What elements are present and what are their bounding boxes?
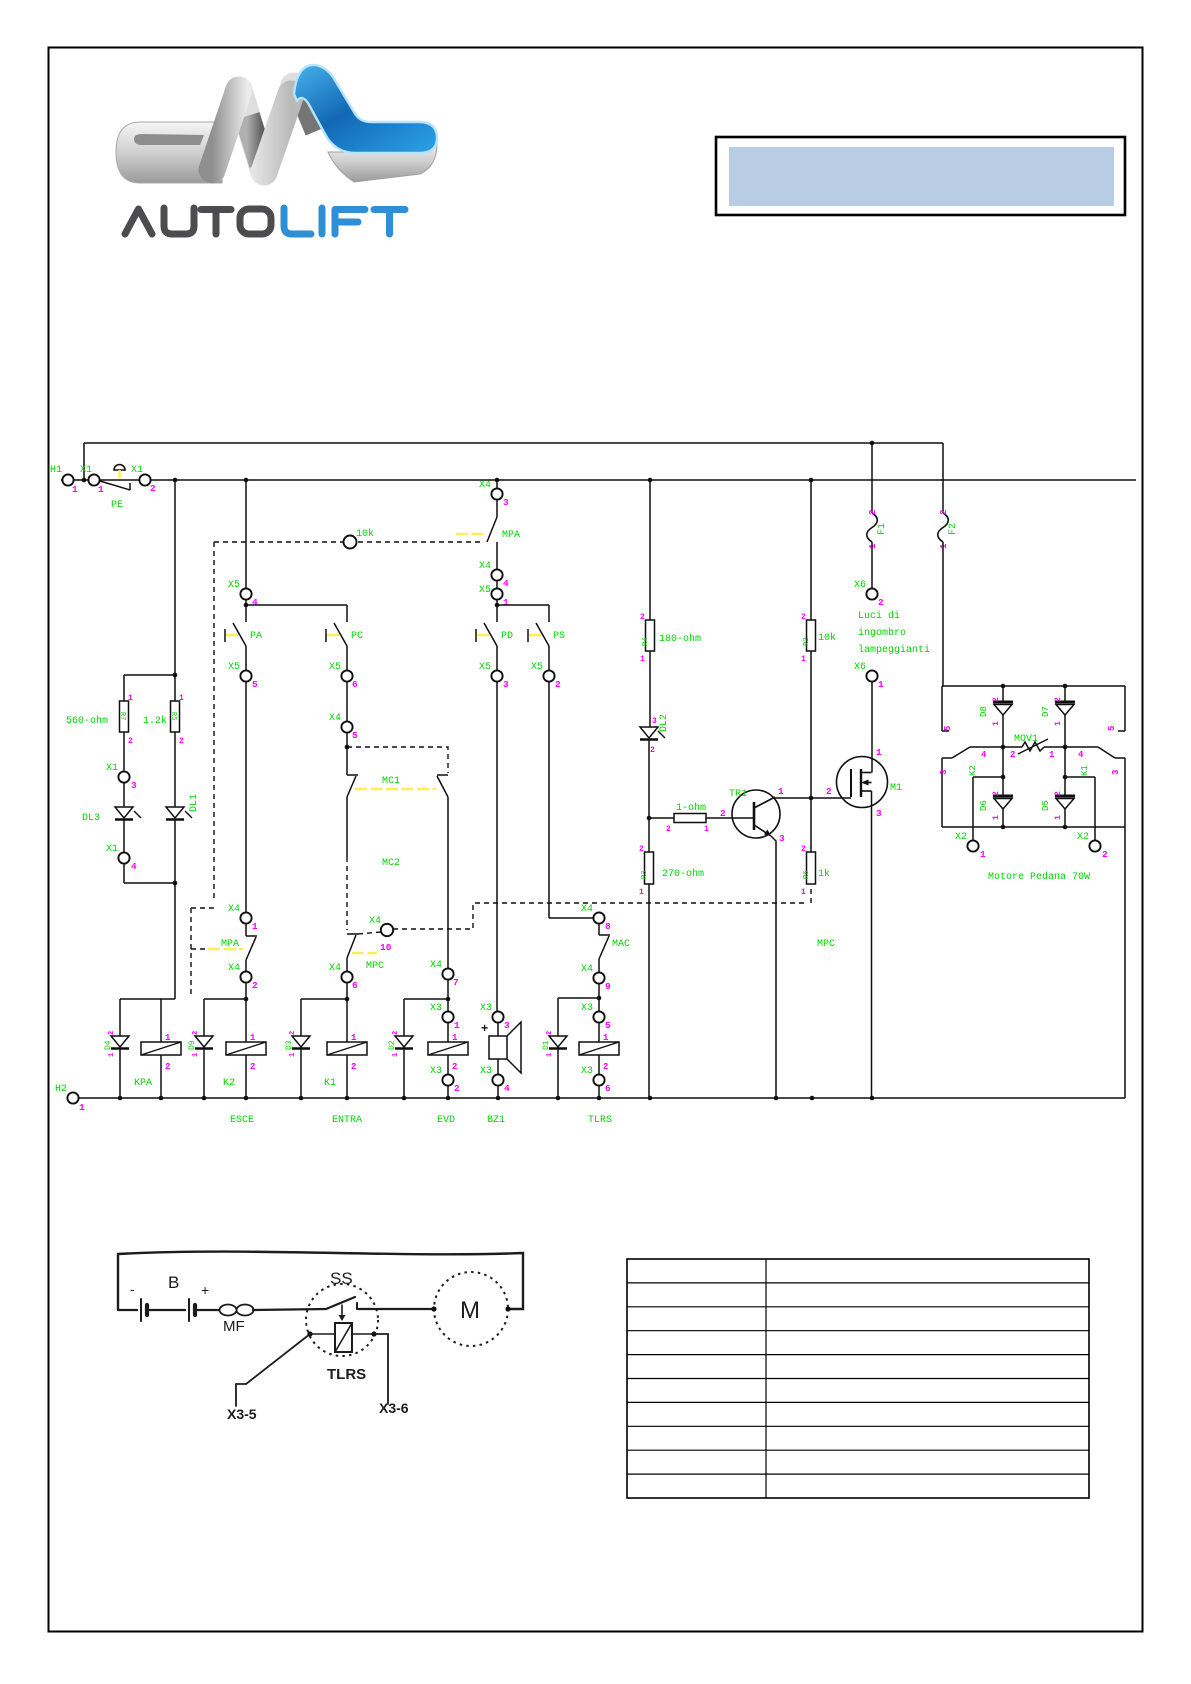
svg-text:K2: K2 [223, 1078, 235, 1089]
svg-text:2: 2 [801, 845, 806, 854]
wire MPA top column [496, 480, 498, 488]
svg-text:X1: X1 [106, 763, 118, 774]
switch MC1 right contact [437, 775, 448, 968]
svg-text:2: 2 [878, 597, 884, 608]
svg-text:2: 2 [650, 746, 655, 755]
svg-text:MPA: MPA [221, 939, 239, 950]
AUTOLIFT logo [116, 65, 437, 183]
svg-text:M1: M1 [890, 783, 902, 794]
svg-text:H2: H2 [55, 1084, 67, 1095]
diode D9 [188, 999, 213, 1098]
grey zigzag ribbon [212, 86, 294, 172]
svg-text:X5: X5 [479, 662, 491, 673]
svg-text:1-ohm: 1-ohm [676, 802, 706, 814]
svg-text:3: 3 [504, 1020, 510, 1031]
svg-text:MC1: MC1 [382, 776, 400, 787]
svg-text:1: 1 [704, 825, 709, 834]
svg-text:1: 1 [108, 1053, 116, 1057]
svg-text:X2: X2 [955, 832, 967, 843]
connector H2 pin 1 [55, 1084, 85, 1113]
svg-text:DL1: DL1 [189, 794, 200, 812]
svg-text:1: 1 [801, 655, 806, 664]
contact K1 [1078, 747, 1125, 827]
switch PD [476, 623, 513, 670]
svg-text:D2: D2 [388, 1040, 397, 1050]
svg-text:lampeggianti: lampeggianti [858, 644, 930, 656]
svg-text:2: 2 [452, 1062, 457, 1072]
svg-text:2: 2 [392, 1031, 400, 1035]
LED DL2 [640, 714, 670, 852]
wire X1-4 to lamp column [124, 864, 177, 885]
svg-text:1: 1 [992, 815, 1001, 820]
svg-text:+: + [201, 1282, 209, 1298]
svg-text:1: 1 [128, 694, 133, 703]
legend table [627, 1259, 1089, 1498]
wire bridge bottom rail [942, 825, 1125, 1098]
connector X5 pin 3 [479, 662, 509, 1011]
svg-text:X5: X5 [531, 662, 543, 673]
svg-text:X4: X4 [479, 561, 491, 572]
svg-text:4: 4 [1078, 750, 1084, 760]
svg-text:R3: R3 [641, 871, 649, 879]
svg-text:ESCE: ESCE [230, 1115, 254, 1126]
connector X1 pin 3 [106, 763, 137, 807]
contact K2 terminal 5 [942, 686, 953, 731]
svg-text:2: 2 [868, 510, 878, 515]
svg-text:D9: D9 [188, 1040, 197, 1050]
svg-text:1: 1 [876, 747, 882, 758]
diode D7 [1041, 686, 1075, 747]
switch SS [306, 1269, 434, 1356]
diode D1 [542, 998, 567, 1098]
relay EVD [428, 1033, 468, 1126]
svg-text:1: 1 [252, 921, 258, 932]
svg-text:2: 2 [250, 1062, 255, 1072]
svg-text:2: 2 [801, 613, 806, 622]
svg-text:K1: K1 [324, 1078, 336, 1089]
svg-text:Luci di: Luci di [858, 610, 900, 622]
svg-text:TR1: TR1 [729, 789, 747, 800]
svg-text:1: 1 [250, 1033, 256, 1043]
blue title box [716, 137, 1125, 215]
svg-text:1.2k: 1.2k [143, 715, 167, 727]
svg-text:R6: R6 [803, 871, 811, 879]
svg-text:9: 9 [605, 981, 611, 992]
svg-text:X3-5: X3-5 [227, 1406, 257, 1422]
switch PA [225, 623, 262, 670]
svg-text:560-ohm: 560-ohm [66, 715, 108, 727]
svg-text:1: 1 [289, 1053, 297, 1057]
svg-text:2: 2 [192, 1031, 200, 1035]
svg-text:X4: X4 [581, 964, 593, 975]
svg-text:X5: X5 [329, 662, 341, 673]
connector X2 pin 1 [955, 775, 1005, 860]
battery B [118, 1273, 219, 1321]
resistor R2 10k [801, 613, 836, 852]
svg-text:7: 7 [453, 977, 459, 988]
wire 10k column [810, 480, 812, 620]
svg-text:ENTRA: ENTRA [332, 1115, 362, 1126]
svg-text:X1: X1 [106, 844, 118, 855]
svg-text:1: 1 [392, 1053, 400, 1057]
svg-text:2: 2 [826, 786, 832, 797]
svg-text:+: + [481, 1022, 488, 1036]
wire main supply bus [61, 441, 1136, 483]
svg-text:X4: X4 [369, 916, 381, 927]
svg-text:2: 2 [179, 737, 184, 746]
diode D8 [979, 686, 1013, 747]
svg-text:2: 2 [939, 510, 949, 515]
svg-text:DL2: DL2 [659, 714, 670, 732]
svg-text:R4: R4 [642, 638, 650, 646]
svg-text:D7: D7 [1041, 706, 1051, 717]
connector X5 pin 6 [329, 662, 358, 721]
switch MPA top [456, 517, 520, 569]
svg-text:K1: K1 [1080, 765, 1090, 776]
relay KPA [120, 999, 181, 1098]
svg-text:4: 4 [981, 750, 987, 760]
svg-text:1: 1 [939, 543, 949, 549]
svg-text:2: 2 [289, 1031, 297, 1035]
svg-text:M: M [460, 1297, 480, 1324]
connector X5 pin 1 [479, 585, 549, 622]
connector X3 pin 4 [480, 1066, 510, 1098]
svg-text:MC2: MC2 [382, 858, 400, 869]
LED DL3 [82, 807, 141, 852]
svg-text:X6: X6 [854, 662, 866, 673]
connector X4 pin 2 [204, 963, 258, 1042]
svg-text:SS: SS [330, 1269, 353, 1288]
wire 180-ohm column [649, 480, 651, 620]
fuse F2 [938, 443, 959, 686]
svg-text:K2: K2 [968, 765, 978, 776]
transistor TR1 [720, 786, 785, 1098]
svg-text:2: 2 [1054, 791, 1063, 796]
svg-text:1: 1 [179, 694, 184, 703]
svg-text:2: 2 [640, 613, 645, 622]
svg-text:2: 2 [1010, 750, 1015, 760]
wire to X3-6 [374, 1334, 409, 1416]
connector X6 pin 2 [854, 580, 884, 608]
diode D2 [388, 999, 413, 1098]
connector X4 pin 10 [358, 916, 393, 936]
svg-text:1: 1 [165, 1033, 171, 1043]
svg-text:3: 3 [1111, 770, 1121, 775]
svg-text:3: 3 [131, 780, 137, 791]
resistor R6 1k [801, 845, 830, 897]
relay K2 ESCE [223, 1033, 266, 1126]
svg-text:1: 1 [503, 597, 509, 608]
svg-text:D6: D6 [979, 800, 989, 811]
svg-text:Motore Pedana 70W: Motore Pedana 70W [988, 871, 1090, 883]
switch MC1 left contact [347, 775, 436, 930]
svg-text:1: 1 [72, 484, 78, 495]
svg-text:2: 2 [546, 1031, 554, 1035]
motor M sketch [431, 1272, 510, 1346]
fuse F1 [867, 443, 888, 588]
svg-text:-: - [130, 1281, 135, 1297]
blue L ribbon [294, 65, 437, 153]
linkage dashes MC1 [347, 747, 448, 773]
svg-text:2: 2 [108, 1031, 116, 1035]
diode D6 [979, 747, 1013, 827]
svg-text:TLRS: TLRS [327, 1366, 366, 1383]
svg-text:X3-6: X3-6 [379, 1400, 409, 1416]
svg-text:2: 2 [351, 1062, 356, 1072]
svg-text:3: 3 [503, 679, 509, 690]
connector X4 pin 7 [404, 960, 459, 1011]
svg-text:H1: H1 [50, 465, 62, 476]
fuse MF [220, 1305, 327, 1336]
svg-text:X1: X1 [131, 465, 143, 476]
svg-text:D5: D5 [1041, 800, 1051, 811]
svg-text:D3: D3 [285, 1040, 294, 1050]
sketch circuit loop wire [118, 1252, 523, 1310]
switch MAC [599, 935, 630, 972]
svg-text:1: 1 [603, 1033, 609, 1043]
svg-text:1: 1 [192, 1053, 200, 1057]
svg-text:2: 2 [555, 679, 561, 690]
svg-text:1: 1 [878, 679, 884, 690]
svg-text:1: 1 [1054, 815, 1063, 820]
svg-text:PS: PS [553, 631, 565, 642]
svg-text:1: 1 [992, 721, 1001, 726]
connector X2 pin 2 [1063, 775, 1108, 860]
connector X5 pin 2 [531, 662, 593, 918]
resistor R7 560-ohm [66, 694, 133, 771]
svg-text:6: 6 [352, 679, 358, 690]
label luci [858, 610, 930, 656]
svg-text:R7: R7 [118, 712, 126, 720]
svg-text:F1: F1 [877, 523, 888, 535]
svg-text:PE: PE [111, 500, 123, 511]
connector X4 pin 3 [479, 480, 509, 517]
connector X4 pin 6 [301, 963, 358, 1042]
svg-text:X3: X3 [480, 1003, 492, 1014]
svg-text:1: 1 [1049, 750, 1055, 760]
wire PA column [245, 480, 247, 588]
svg-text:3: 3 [876, 808, 882, 819]
relay TLRS sketch [307, 1323, 376, 1383]
svg-text:2: 2 [1054, 697, 1063, 702]
resistor R3 270-ohm [639, 845, 704, 1098]
svg-text:2: 2 [639, 845, 644, 854]
svg-text:KPA: KPA [134, 1078, 152, 1089]
linkage node 10k [344, 528, 375, 549]
svg-text:1: 1 [452, 1033, 458, 1043]
svg-text:D4: D4 [104, 1040, 113, 1050]
svg-text:4: 4 [503, 578, 509, 589]
svg-text:180-ohm: 180-ohm [659, 633, 701, 645]
linkage dashes MPC [393, 886, 835, 950]
svg-text:X3: X3 [581, 1066, 593, 1077]
resistor R5 1.2k [143, 694, 184, 807]
connector X5 pin 5 [228, 662, 258, 912]
connector X3 pin 5 [581, 1003, 611, 1042]
svg-text:2: 2 [128, 737, 133, 746]
connector X4 pin 8 [581, 904, 611, 935]
svg-text:3: 3 [503, 497, 509, 508]
AUTOLIFT wordmark [125, 208, 405, 234]
svg-text:X5: X5 [228, 580, 240, 591]
svg-text:D8: D8 [979, 706, 989, 717]
svg-text:2: 2 [165, 1062, 170, 1072]
contact K2 [939, 747, 987, 827]
svg-text:2: 2 [150, 483, 156, 494]
svg-text:8: 8 [605, 921, 611, 932]
switch PE [100, 465, 130, 511]
linkage dashes MPA [191, 542, 214, 998]
svg-text:3: 3 [652, 717, 657, 726]
svg-text:TLRS: TLRS [588, 1115, 612, 1126]
svg-text:2: 2 [252, 980, 258, 991]
svg-text:1: 1 [778, 786, 784, 797]
svg-text:2: 2 [720, 808, 726, 819]
svg-text:1: 1 [79, 1102, 85, 1113]
svg-text:X1: X1 [80, 465, 92, 476]
svg-text:MAC: MAC [612, 939, 630, 950]
svg-text:PA: PA [250, 631, 262, 642]
diode D4 [104, 999, 129, 1098]
svg-text:3: 3 [939, 770, 949, 775]
svg-text:1: 1 [640, 655, 645, 664]
svg-text:1: 1 [639, 888, 644, 897]
svg-text:4: 4 [131, 861, 137, 872]
svg-text:MPC: MPC [817, 939, 835, 950]
connector X4 pin 4 [479, 561, 509, 589]
connector X3 pin 2 [430, 1066, 460, 1098]
connector H1 pin 1 [50, 465, 78, 495]
svg-text:4: 4 [252, 597, 258, 608]
svg-text:X4: X4 [430, 960, 442, 971]
diode D3 [285, 999, 310, 1098]
wire to X3-5 [227, 1334, 310, 1422]
svg-text:PC: PC [351, 631, 363, 642]
svg-text:1: 1 [1054, 721, 1063, 726]
connector X5 pin 4 [228, 580, 347, 622]
wire bridge top rail [942, 684, 1125, 689]
svg-text:5: 5 [252, 679, 258, 690]
svg-text:1k: 1k [818, 868, 830, 880]
MOSFET M1 [826, 747, 902, 1098]
svg-text:MF: MF [223, 1318, 245, 1335]
svg-text:X4: X4 [329, 713, 341, 724]
svg-text:B: B [168, 1273, 179, 1292]
svg-text:BZ1: BZ1 [487, 1115, 505, 1126]
svg-text:F2: F2 [948, 523, 959, 535]
svg-text:4: 4 [504, 1083, 510, 1094]
svg-text:2: 2 [1102, 849, 1108, 860]
wire top feed line [84, 443, 943, 480]
svg-text:R5: R5 [169, 712, 177, 720]
varistor MOV1 [970, 734, 1098, 760]
svg-text:1: 1 [98, 484, 104, 495]
svg-text:1: 1 [980, 849, 986, 860]
switch MPC [347, 934, 392, 972]
wire lamp branch column [124, 480, 177, 701]
svg-text:X3: X3 [430, 1003, 442, 1014]
svg-text:5: 5 [1107, 726, 1117, 731]
svg-text:5: 5 [943, 726, 953, 731]
relay TLRS [579, 1033, 619, 1126]
svg-text:DL3: DL3 [82, 813, 100, 824]
svg-text:X4: X4 [228, 963, 240, 974]
connector X3 pin 6 [581, 1066, 611, 1098]
svg-text:1: 1 [868, 543, 878, 549]
svg-text:D1: D1 [542, 1040, 551, 1050]
resistor R1 1-ohm [649, 802, 754, 834]
svg-text:270-ohm: 270-ohm [662, 868, 704, 880]
linkage dashes MPA top row [214, 541, 484, 543]
svg-text:10k: 10k [818, 632, 836, 644]
svg-text:2: 2 [992, 697, 1001, 702]
wire gate node [775, 797, 851, 799]
svg-text:1: 1 [546, 1053, 554, 1057]
svg-text:2: 2 [454, 1083, 460, 1094]
svg-text:1: 1 [351, 1033, 357, 1043]
svg-text:10: 10 [380, 942, 392, 953]
svg-text:EVD: EVD [437, 1115, 455, 1126]
wire ground bus [79, 1096, 1125, 1101]
connector X4 pin 1 [228, 904, 258, 936]
connector X1 pin 2 [131, 465, 156, 494]
connector X6 pin 1 [854, 662, 884, 773]
svg-text:X5: X5 [228, 662, 240, 673]
svg-text:X4: X4 [581, 904, 593, 915]
svg-text:2: 2 [666, 825, 671, 834]
connector X4 pin 5 [329, 713, 358, 775]
svg-text:X2: X2 [1077, 832, 1089, 843]
grey underside band of the L [328, 140, 437, 182]
LED DL1 [166, 794, 200, 999]
svg-text:5: 5 [352, 730, 358, 741]
svg-text:R2: R2 [803, 638, 811, 646]
svg-text:X3: X3 [581, 1003, 593, 1014]
diode D5 [1041, 747, 1075, 827]
svg-text:MOV1: MOV1 [1014, 734, 1038, 745]
svg-text:X3: X3 [480, 1066, 492, 1077]
svg-text:MPA: MPA [502, 530, 520, 541]
buzzer BZ1 [481, 1022, 521, 1126]
connector X4 pin 9 [558, 964, 611, 1011]
svg-text:X4: X4 [228, 904, 240, 915]
svg-text:3: 3 [779, 833, 785, 844]
svg-text:X4: X4 [479, 480, 491, 491]
svg-text:5: 5 [605, 1020, 611, 1031]
svg-text:X6: X6 [854, 580, 866, 591]
connector X1 pin 1 [80, 465, 104, 495]
svg-text:PD: PD [501, 631, 513, 642]
svg-text:1: 1 [801, 888, 806, 897]
svg-text:6: 6 [352, 980, 358, 991]
svg-text:X5: X5 [479, 585, 491, 596]
svg-text:2: 2 [992, 791, 1001, 796]
left loop ring [116, 122, 222, 183]
resistor R4 180-ohm [640, 613, 701, 727]
svg-text:6: 6 [605, 1083, 611, 1094]
switch MPA lower [208, 936, 257, 971]
connector X1 pin 4 [106, 844, 137, 872]
label motore [988, 871, 1090, 883]
contact K1 terminal 5 [1107, 686, 1125, 731]
svg-text:ingombro: ingombro [858, 627, 906, 639]
svg-text:2: 2 [603, 1062, 608, 1072]
svg-text:10k: 10k [356, 528, 374, 540]
switch PC [326, 605, 363, 670]
svg-text:X3: X3 [430, 1066, 442, 1077]
switch PS [528, 605, 565, 670]
svg-text:MPC: MPC [366, 961, 384, 972]
